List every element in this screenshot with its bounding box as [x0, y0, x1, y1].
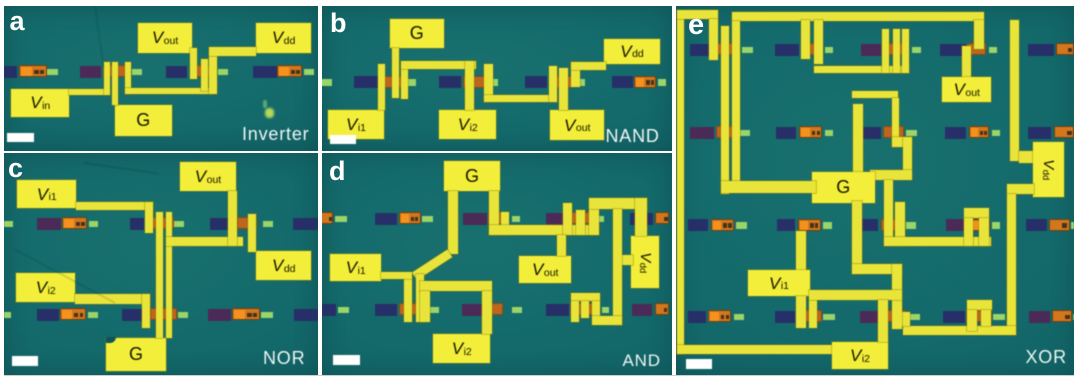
wire Q23 top bar — [967, 300, 992, 310]
transistor Q12 pads — [461, 303, 463, 305]
wire G feed horizontal — [852, 91, 898, 98]
transistor Q8 pads — [121, 308, 123, 310]
panel b: NAND micrograph — [322, 6, 672, 151]
transistor Q19 pads — [857, 218, 859, 220]
wire Q4 gate finger to Vi2 — [465, 61, 475, 111]
pad group E22 — [775, 126, 777, 128]
wire cross link horizontal — [166, 237, 244, 246]
pad group E25 — [1027, 126, 1029, 128]
label Vdd rotated — [631, 236, 659, 288]
wire G right leg through Q9 — [489, 191, 499, 235]
wire Vi1 riser up — [796, 231, 806, 270]
label G — [812, 172, 875, 203]
edge pad green r1 — [3, 217, 5, 219]
label G — [390, 19, 445, 49]
wire Q13 finger 2 — [581, 301, 589, 318]
scale bar — [330, 135, 357, 145]
wire feed jog down — [892, 98, 899, 147]
green arrow marker — [263, 100, 267, 108]
wire Vin horizontal — [69, 89, 109, 96]
wire H2 horizontal — [884, 237, 991, 246]
pad group E11 — [689, 43, 691, 45]
label Vi2 — [439, 110, 496, 139]
wire Q22 finger 2 — [809, 300, 818, 329]
pad group E24 — [944, 126, 946, 128]
wire Vi1 horizontal — [76, 202, 153, 210]
wire G top riser — [853, 104, 863, 173]
label Vi2 — [433, 334, 490, 363]
wire long vertical B — [732, 21, 741, 188]
panel d: AND micrograph — [322, 153, 672, 375]
pad group E41 — [687, 310, 689, 312]
wire Vi2 loop right leg — [482, 291, 492, 334]
transistor Q9 pads — [462, 212, 464, 214]
label G — [444, 161, 500, 191]
contact pad group C1 — [36, 217, 38, 219]
label Vi2 — [16, 273, 75, 302]
text AND — [623, 352, 661, 369]
wire Q1 source finger — [104, 62, 110, 96]
transistor Q16 pads — [939, 43, 941, 45]
wire top bar drop 1 — [709, 19, 719, 60]
wire G staircase horiz — [852, 264, 902, 274]
wire Q14 finger 1 — [801, 20, 810, 59]
panel letter e — [688, 11, 704, 40]
wire loop top bar segment 2 — [732, 12, 985, 21]
label Vout — [550, 110, 604, 140]
wire G diagonal — [412, 250, 452, 280]
wire Q5 source finger — [549, 66, 557, 103]
wire Q14 finger 2 — [814, 20, 823, 64]
wire Q23 leg 2 — [981, 310, 991, 327]
transistor Q5 pads — [524, 75, 526, 77]
wire H1 horizontal — [814, 66, 910, 74]
wire feed jog horizontal — [892, 137, 912, 147]
wire G tab horizontal — [870, 170, 913, 180]
transistor Q15 pads — [860, 43, 862, 45]
wire loop left vertical — [677, 11, 685, 355]
pad group E15 — [1027, 43, 1029, 45]
edge pad group D5 — [631, 303, 633, 305]
pad group E45 — [1028, 310, 1030, 312]
wire Q23 stub — [900, 312, 910, 326]
wire Vdd horizontal — [571, 62, 606, 70]
label G — [115, 105, 172, 136]
wire gate bus vertical 1 — [156, 212, 163, 338]
wire right rail vertical — [1010, 20, 1020, 162]
wire Q13 finger 1 — [571, 301, 579, 322]
wire Vout finger through Q7 — [228, 191, 237, 247]
wire Vout finger — [190, 48, 198, 79]
contact pad group C2 — [36, 308, 38, 310]
label Vdd — [256, 23, 311, 53]
wire Q15 finger 1 — [882, 29, 889, 73]
wire G staircase leg 2 — [892, 264, 902, 330]
panel letter d — [329, 158, 346, 185]
dark notch on G box corner — [106, 337, 116, 343]
panel e: XOR micrograph — [676, 6, 1075, 375]
label Vout — [180, 162, 236, 191]
label Vi2 — [832, 342, 889, 369]
text NOR — [263, 349, 305, 367]
wire Vout connector — [557, 235, 566, 256]
transistor Q18 pads — [776, 218, 778, 220]
wire Q19 finger B — [895, 202, 905, 247]
label Vdd — [256, 251, 311, 281]
scratch mark — [94, 6, 104, 68]
label Vi1 — [17, 180, 76, 208]
wire Q2 mid finger — [201, 59, 208, 91]
edge pad navy r2 — [293, 308, 295, 310]
edge pad green — [319, 75, 321, 77]
wire Vdd bottom jog — [1007, 184, 1035, 194]
wire Q13 finger 3 — [592, 301, 600, 316]
wire series link horizontal — [484, 95, 557, 103]
contact pad group A1 — [2, 65, 4, 67]
wire drop to row3 — [884, 180, 894, 246]
wire gate bus vertical 2 — [166, 212, 173, 338]
scratch mark diagonal — [13, 248, 115, 303]
wire Q13 bottom bar — [592, 316, 622, 325]
label Vout — [138, 23, 192, 53]
pad group E35 — [1025, 218, 1027, 220]
contact pad group C3 — [207, 308, 209, 310]
wire Q3 drain finger — [401, 64, 409, 99]
wire top bar drop — [974, 20, 985, 49]
transistor Q14 pads — [774, 43, 776, 45]
transistor Q10 pads — [545, 212, 547, 214]
wire row2 to G horizontal — [721, 181, 816, 193]
wire Q6 source finger — [145, 202, 153, 233]
transistor Q21 pads — [774, 310, 776, 312]
wire Q5 mid finger to Vout — [559, 68, 568, 111]
wire Q10 finger B — [576, 210, 585, 235]
wire Q10 finger A — [563, 203, 572, 235]
wire Vi2 loop left leg — [420, 291, 430, 322]
transistor Q3 pads — [353, 75, 355, 77]
panel letter c — [8, 155, 23, 182]
transistor Q17 pads — [859, 126, 861, 128]
wire Q1 gate finger to G — [112, 62, 118, 106]
wire G horizontal rail — [401, 61, 476, 69]
edge pad green r2 — [3, 308, 5, 310]
wire G staircase leg 1 — [852, 201, 862, 274]
wire Q13 top bar — [571, 293, 600, 301]
label Vdd rotated — [1033, 142, 1064, 197]
edge pad navy r1 — [292, 217, 294, 219]
wire Vout finger — [962, 46, 971, 77]
wire Vi2 loop top — [420, 281, 492, 291]
scratch mark curved — [84, 162, 158, 174]
wire Vi1 horizontal — [381, 272, 412, 279]
label Vi1 — [330, 254, 381, 281]
wire Vdd drop vertical — [1007, 194, 1017, 335]
wire Q7 drain finger to Vdd — [248, 214, 257, 252]
wire Q11 finger 1 — [404, 277, 412, 322]
wire nand output horizontal — [489, 225, 599, 235]
label Vdd — [604, 39, 660, 64]
label G — [106, 338, 166, 371]
transistor Q22 pads — [859, 310, 861, 312]
edge pad orange r1 — [319, 212, 321, 214]
transistor Q6 pads — [129, 217, 131, 219]
transistor Q1 pads (inverter input FET) — [79, 65, 81, 67]
contact pad group D1 — [374, 212, 376, 214]
wire Vi1 riser down — [796, 296, 806, 328]
edge pad navy r2 — [321, 303, 323, 305]
wire Vi2 horizontal — [75, 294, 150, 304]
transistor Q11 pads — [374, 303, 376, 305]
panel a: inverter micrograph — [4, 6, 318, 151]
wire Q20 leg 2 — [979, 218, 989, 246]
label Vi1 — [328, 110, 384, 139]
wire Vi2 riser — [878, 300, 888, 343]
wire loop bottom bar — [677, 345, 832, 355]
wire interconnect horizontal — [125, 88, 214, 94]
wire G leg through Q3 — [392, 48, 399, 98]
transistor Q2 pads (inverter load FET) — [165, 65, 167, 67]
wire loop top bar segment 1 — [677, 10, 719, 19]
wire H3 horizontal — [809, 290, 902, 300]
wire long bottom horizontal — [903, 326, 1016, 335]
scale bar — [333, 355, 360, 365]
wire top link bar — [589, 198, 647, 209]
edge pad group D4 — [629, 212, 631, 214]
wire Q5 drain finger to Vdd — [571, 62, 581, 87]
label Vin — [11, 89, 69, 117]
contact pad group A4 — [252, 65, 254, 67]
scale bar — [7, 133, 34, 143]
wire Vdd drop — [635, 198, 647, 236]
text Inverter — [242, 125, 309, 143]
wire Q15 finger 2 — [893, 29, 900, 73]
text XOR — [1026, 348, 1067, 366]
wire Vdd tab — [621, 255, 633, 265]
wire Vdd horizontal — [209, 47, 256, 57]
wire G left leg — [448, 191, 458, 254]
wire Q20 leg 1 — [964, 218, 974, 246]
label Vi1 — [748, 270, 810, 296]
wire Q4 drain finger — [484, 64, 493, 103]
panel c: NOR micrograph — [4, 153, 318, 375]
wire Q11 finger 2 — [416, 274, 424, 322]
transistor Q20 pads — [945, 218, 947, 220]
wire Q23 leg 1 — [967, 310, 977, 331]
label Vout — [942, 77, 991, 103]
wire long vertical A — [721, 26, 729, 194]
wire riser to Vdd rail — [209, 50, 217, 94]
figure bottom hairline shadow — [4, 375, 1074, 376]
wire feed jog vertical — [903, 137, 913, 179]
wire Q1 drain finger — [125, 62, 131, 94]
transistor Q23 pads — [942, 310, 944, 312]
wire Q20 top bar — [964, 208, 989, 218]
transistor Q4 pads — [438, 75, 440, 77]
pad group E21 — [689, 126, 691, 128]
label Vout — [519, 256, 571, 283]
contact pad group B4 — [611, 75, 613, 77]
panel letter a — [10, 8, 25, 35]
pad group E31 — [687, 218, 689, 220]
panel letter b — [330, 10, 347, 37]
wire Q15 finger 3 — [902, 29, 909, 73]
text NAND — [606, 127, 660, 145]
scale bar — [12, 356, 39, 366]
transistor Q13 pads — [545, 303, 547, 305]
wire riser — [589, 200, 599, 235]
wire Q8 source finger — [142, 294, 150, 328]
scale bar — [686, 359, 713, 369]
wire tall vertical — [613, 209, 622, 325]
transistor Q7 pads — [209, 217, 211, 219]
wire Q9 drain finger — [501, 212, 509, 235]
wire Vdd tab — [1019, 151, 1034, 163]
wire Q3 source finger to Vi1 — [378, 64, 386, 111]
